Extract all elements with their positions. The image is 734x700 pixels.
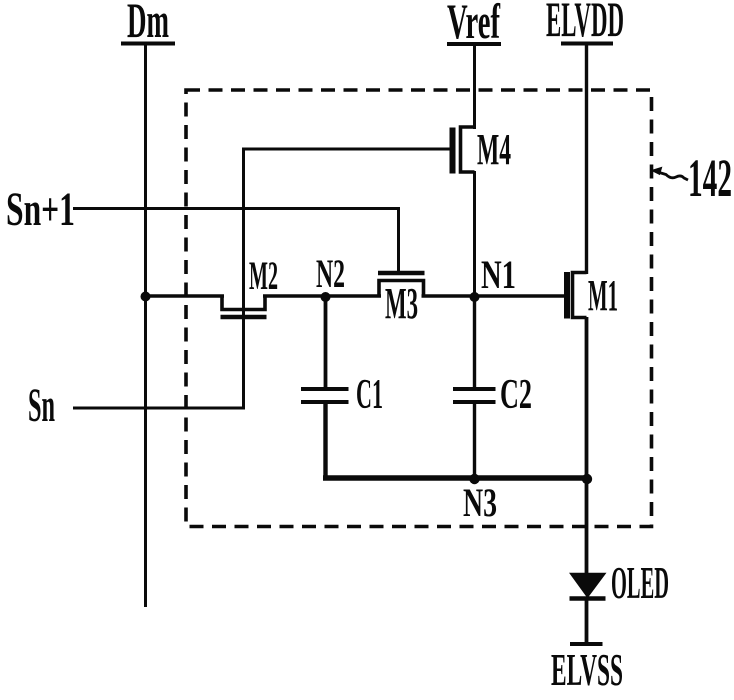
wire: row wire M3 to N1 to M1 gate	[422, 294, 565, 298]
svg-text:C1: C1	[356, 372, 383, 418]
wire: OLED cathode to ELVSS terminal	[585, 598, 589, 644]
svg-text:ELVDD: ELVDD	[546, 0, 624, 47]
transistor M3	[378, 273, 425, 298]
svg-text:N1: N1	[481, 252, 516, 297]
svg-text:Vref: Vref	[447, 0, 501, 49]
svg-text:M4: M4	[477, 125, 511, 174]
svg-text:M2: M2	[249, 253, 278, 298]
node N1 junction dot	[470, 292, 480, 302]
wire: Vref vertical upper (to M4 source)	[473, 44, 476, 129]
ELVDD terminal underline	[561, 42, 613, 46]
wire: Dm data line vertical	[144, 44, 147, 608]
transistor M4	[453, 127, 475, 174]
svg-text:M3: M3	[385, 279, 418, 328]
svg-text:M1: M1	[588, 271, 618, 320]
node N3 junction dot	[469, 474, 479, 484]
svg-text:Sn: Sn	[28, 379, 55, 432]
transistor M1	[567, 272, 587, 319]
wire: N1 down to C2	[473, 296, 476, 387]
leader arrow from box to 142	[656, 172, 688, 181]
node: junction dot at M1 drain / rail	[582, 474, 592, 484]
node: junction dot on Dm at M2 source	[141, 292, 151, 302]
svg-text:ELVSS: ELVSS	[551, 645, 623, 695]
svg-text:Dm: Dm	[127, 0, 169, 48]
dashed pixel-circuit boundary box 142	[186, 90, 652, 527]
svg-text:Sn+1: Sn+1	[6, 183, 75, 236]
wire: M1 drain down to OLED anode	[585, 317, 589, 576]
capacitor C1	[301, 389, 349, 479]
svg-text:OLED: OLED	[611, 557, 669, 608]
capacitor C2	[453, 389, 496, 479]
wire: M4 gate lead horizontal	[244, 148, 450, 151]
wire: N3 bottom rail	[323, 475, 589, 480]
wire: Vref through N1 (M4 drain to N1)	[473, 171, 476, 298]
wire: row wire Dm dot to M2	[146, 294, 225, 298]
svg-text:N3: N3	[463, 480, 497, 525]
wire: Sn+1 drop to M3 gate	[397, 209, 400, 272]
svg-text:N2: N2	[316, 251, 345, 296]
wire: Sn gate riser vertical (M4/M2 gates to Sn line)	[242, 148, 245, 410]
wire: row wire M2 to N2 to M3	[263, 294, 381, 298]
transistor M2	[221, 295, 267, 318]
svg-text:142: 142	[688, 148, 732, 208]
wire: N2 down to C1	[324, 296, 328, 388]
ELVSS terminal bar	[570, 642, 603, 646]
node N2 junction dot	[321, 292, 331, 302]
svg-text:C2: C2	[500, 372, 532, 418]
wire: Sn scan line horizontal	[73, 407, 244, 410]
diode OLED	[570, 574, 606, 599]
wire: Sn+1 scan line horizontal	[73, 207, 400, 210]
Vref terminal underline	[447, 42, 501, 46]
Dm terminal underline	[121, 42, 175, 46]
wire: ELVDD vertical (to M1 source)	[585, 44, 588, 275]
